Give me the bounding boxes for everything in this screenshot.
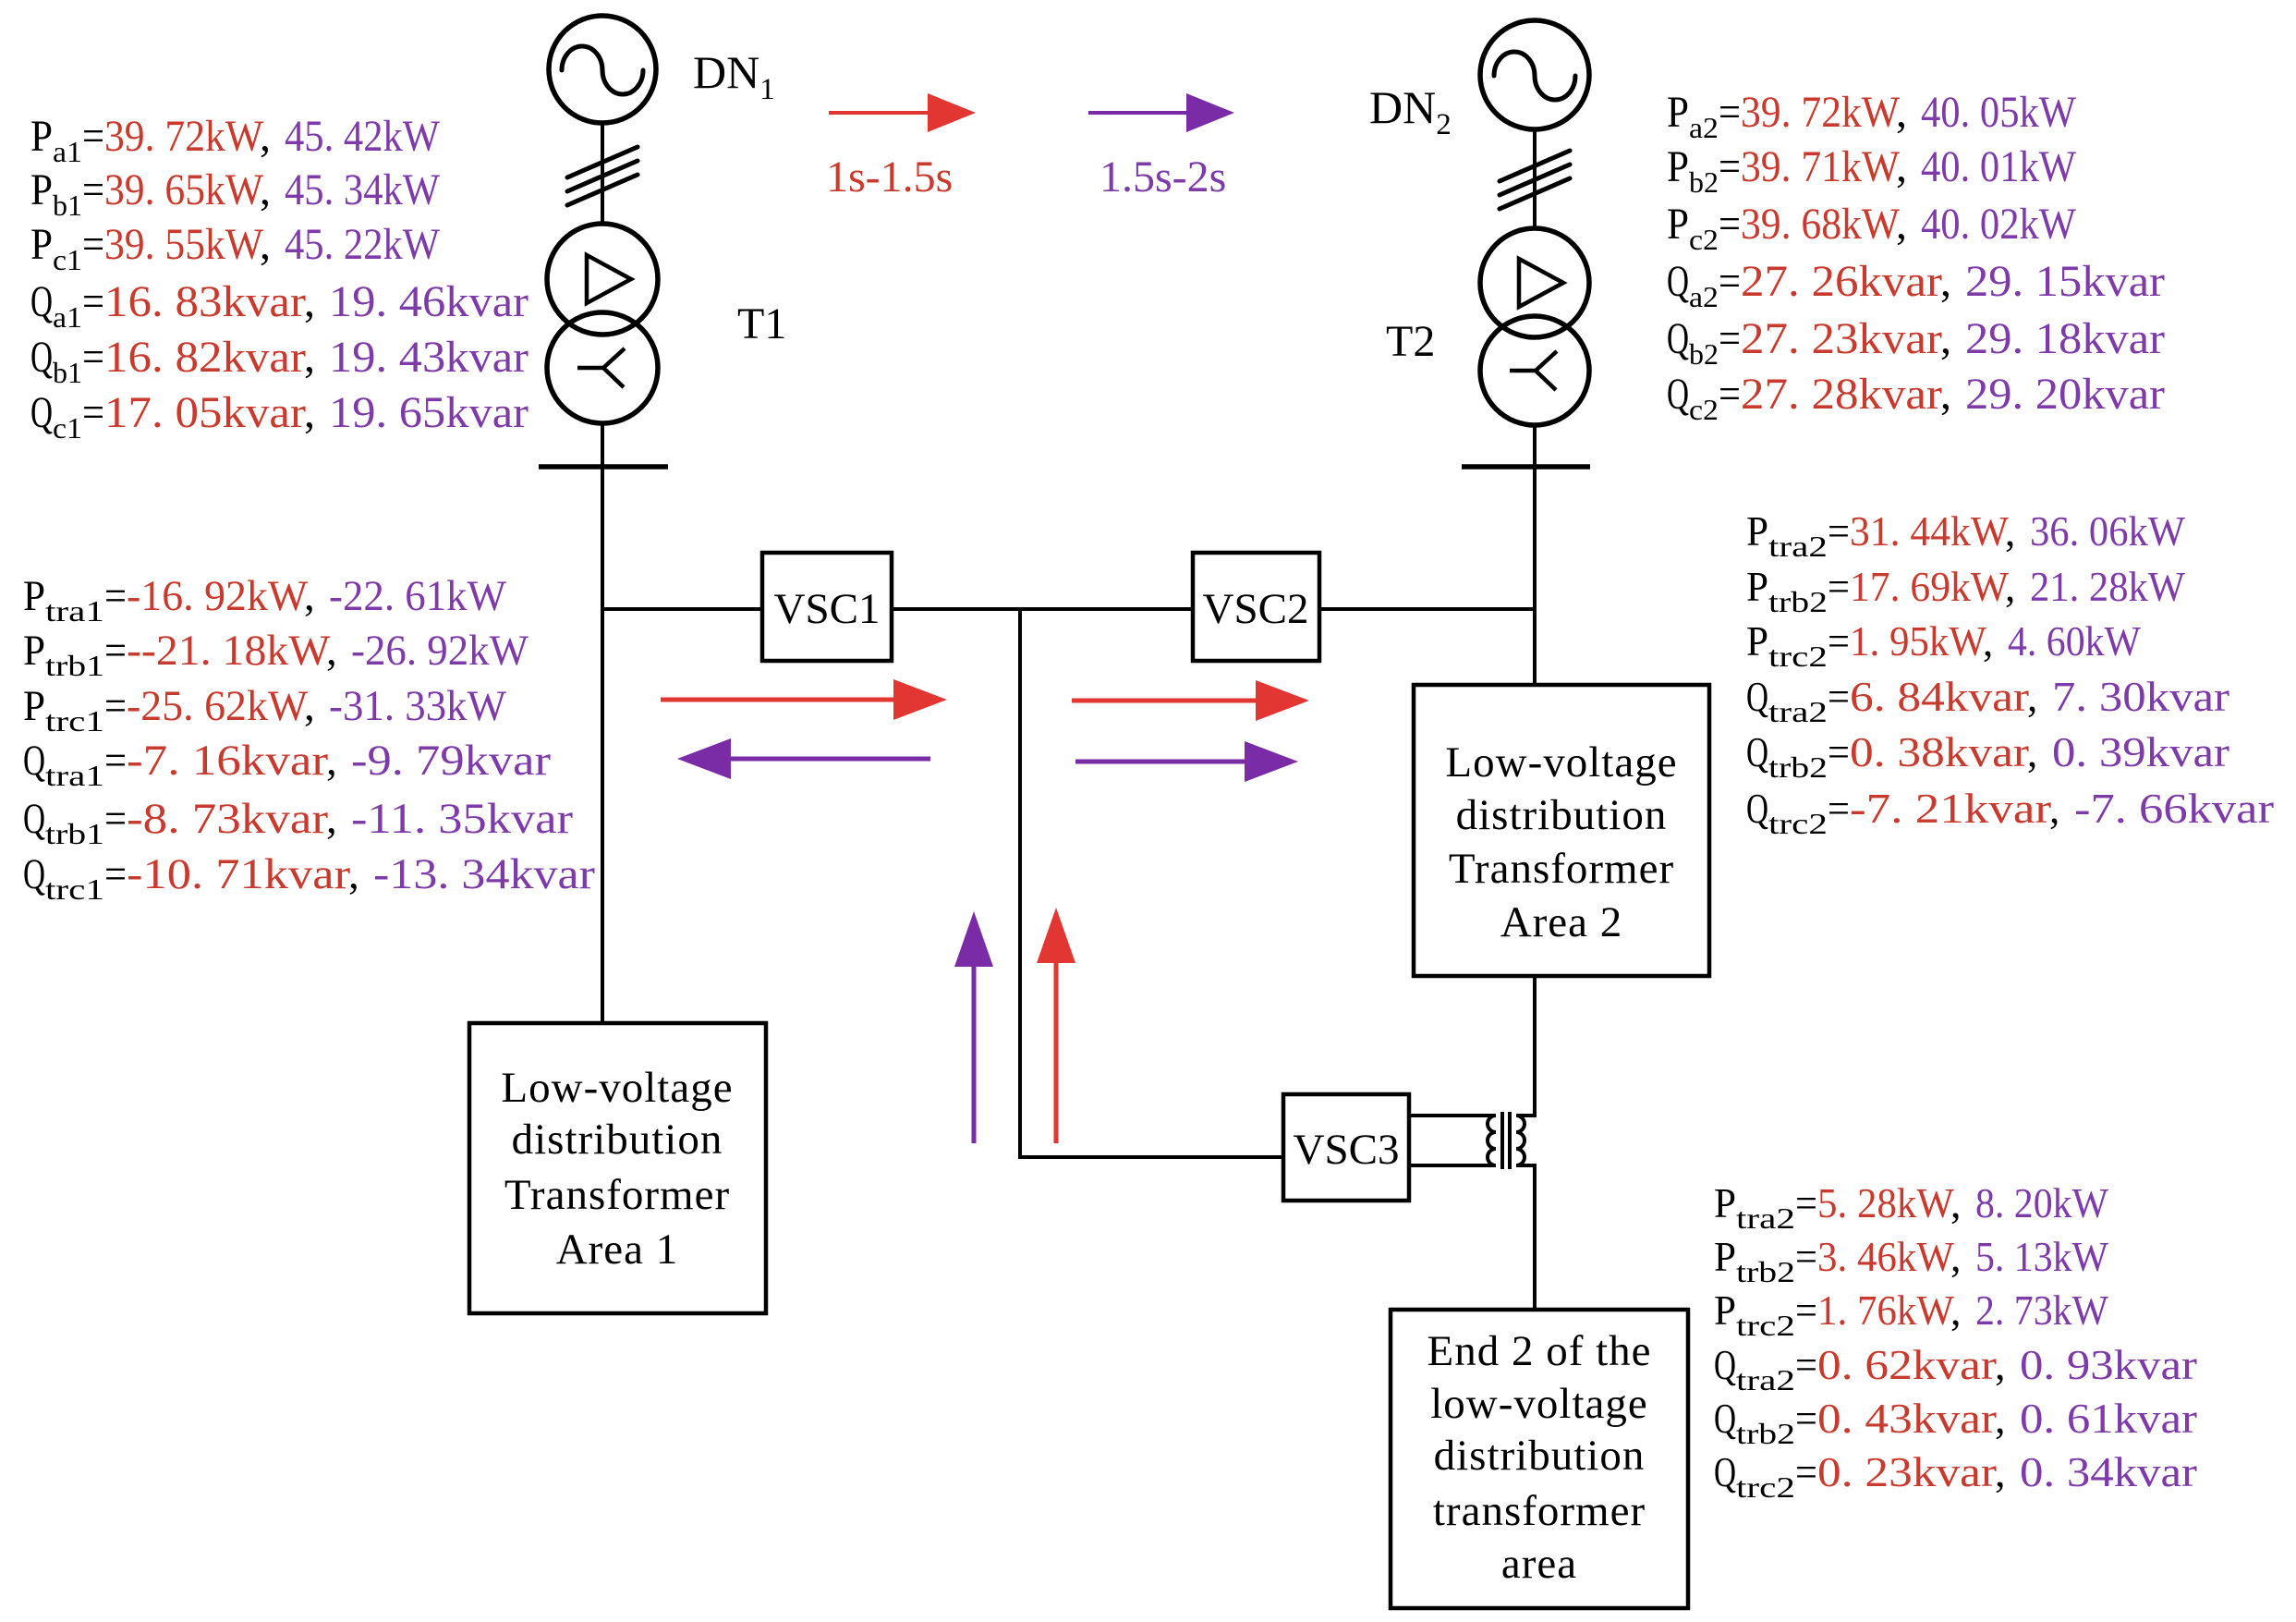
svg-text:VSC1: VSC1 (774, 585, 881, 633)
box: Low-voltage distribution Transformer Area 1 (469, 1023, 766, 1313)
svg-text:Qb1=16. 82kvar,19. 43kvar: Qb1=16. 82kvar,19. 43kvar (30, 333, 528, 389)
box: Low-voltage distribution Transformer Area 2 (1414, 685, 1709, 976)
wire: VSC3 lower stub to winding (1407, 1164, 1496, 1167)
svg-text:Qa2=27. 26kvar,29. 15kvar: Qa2=27. 26kvar,29. 15kvar (1667, 257, 2165, 313)
svg-text:Qtrb1=-8. 73kvar,-11. 35kvar: Qtrb1=-8. 73kvar,-11. 35kvar (23, 795, 573, 850)
svg-text:Pb2=39. 71kW,40. 01kW: Pb2=39. 71kW,40. 01kW (1667, 142, 2077, 199)
svg-text:Low-voltage: Low-voltage (1445, 738, 1677, 787)
svg-text:Pa2=39. 72kW,40. 05kW: Pa2=39. 72kW,40. 05kW (1667, 88, 2077, 144)
svg-text:distribution: distribution (1434, 1432, 1646, 1480)
flow arrow purple up (VSC3 branch) (954, 911, 993, 1143)
flow arrow red right (VSC2 zone) (1072, 680, 1309, 721)
wire: drop from junction J1 down (1018, 607, 1022, 1159)
wire: tie bus middle segment (VSC1 to VSC2 through junction J1) (890, 607, 1195, 611)
wire: T2 through bus B2 to Area 2 box (1533, 425, 1537, 685)
wire: DN2 to T2 (1533, 128, 1537, 230)
svg-text:Qb2=27. 23kvar,29. 18kvar: Qb2=27. 23kvar,29. 18kvar (1667, 314, 2165, 371)
isolation transformer secondary winding (1516, 1116, 1525, 1165)
svg-text:low-voltage: low-voltage (1430, 1380, 1648, 1428)
wire: DN1 to T1 (601, 122, 604, 226)
three-phase marks at T1 (567, 147, 638, 205)
wire: Area 2 box to isolation transformer (1533, 976, 1537, 1117)
flow arrow red right (VSC1 zone) (661, 679, 947, 720)
svg-text:Area 2: Area 2 (1500, 898, 1623, 946)
isolation transformer core (1502, 1112, 1510, 1169)
wire: isolation transformer to End 2 box (1533, 1164, 1537, 1310)
wire: winding upper stub to riser (1516, 1114, 1537, 1117)
svg-text:Pa1=39. 72kW,45. 42kW: Pa1=39. 72kW,45. 42kW (30, 112, 441, 168)
legend red arrow (829, 93, 976, 132)
svg-text:1s-1.5s: 1s-1.5s (826, 152, 953, 201)
transformer T1 (547, 224, 658, 423)
svg-text:Transformer: Transformer (504, 1171, 730, 1219)
svg-text:Pc1=39. 55kW,45. 22kW: Pc1=39. 55kW,45. 22kW (30, 220, 441, 276)
svg-text:T1: T1 (737, 299, 786, 348)
svg-text:Qa1=16. 83kvar,19. 46kvar: Qa1=16. 83kvar,19. 46kvar (30, 277, 528, 334)
wire: winding lower stub to riser (1516, 1164, 1537, 1167)
svg-text:Pc2=39. 68kW,40. 02kW: Pc2=39. 68kW,40. 02kW (1667, 200, 2077, 256)
converter VSC2 (1193, 553, 1319, 661)
three-phase marks at T2 (1500, 151, 1570, 209)
svg-text:Pb1=39. 65kW,45. 34kW: Pb1=39. 65kW,45. 34kW (30, 165, 441, 222)
bus bar B2 (1462, 464, 1590, 470)
wire: run from drop to VSC3 (1018, 1155, 1285, 1159)
wire: tie bus right segment (VSC2 to T2 branch) (1318, 607, 1537, 611)
flow arrow purple right (VSC2 zone) (1075, 741, 1298, 782)
svg-text:Transformer: Transformer (1449, 845, 1674, 893)
legend purple arrow (1088, 93, 1234, 132)
svg-text:Low-voltage: Low-voltage (501, 1064, 733, 1112)
svg-text:1.5s-2s: 1.5s-2s (1099, 152, 1226, 201)
source DN2 (1480, 20, 1589, 129)
transformer T2 (1480, 228, 1589, 425)
svg-text:area: area (1501, 1540, 1577, 1588)
source DN1 (549, 16, 656, 123)
svg-text:distribution: distribution (512, 1116, 723, 1164)
bus bar B1 (539, 464, 668, 470)
wire: tie bus left segment (T1 branch to VSC1) (601, 607, 764, 611)
svg-text:VSC3: VSC3 (1294, 1126, 1400, 1174)
svg-text:End 2 of the: End 2 of the (1427, 1327, 1651, 1375)
svg-text:Area 1: Area 1 (556, 1226, 679, 1274)
svg-text:VSC2: VSC2 (1203, 585, 1309, 633)
svg-text:Qtrc1=-10. 71kvar,-13. 34kvar: Qtrc1=-10. 71kvar,-13. 34kvar (23, 850, 595, 906)
svg-text:T2: T2 (1386, 317, 1435, 366)
isolation transformer primary winding (1488, 1116, 1496, 1165)
svg-text:distribution: distribution (1456, 791, 1668, 839)
flow arrow red up (VSC3 branch) (1037, 908, 1075, 1143)
converter VSC3 (1283, 1094, 1409, 1201)
box: End 2 of the low-voltage distribution transformer area (1391, 1310, 1688, 1608)
svg-text:Qc1=17. 05kvar,19. 65kvar: Qc1=17. 05kvar,19. 65kvar (30, 388, 528, 445)
flow arrow purple left (VSC1 zone) (677, 738, 930, 779)
wire: T1 through bus B1 down to Area 1 box (601, 421, 604, 1023)
wire: VSC3 upper stub to winding (1407, 1114, 1496, 1117)
svg-text:transformer: transformer (1433, 1487, 1646, 1535)
converter VSC1 (762, 553, 892, 661)
svg-text:Qc2=27. 28kvar,29. 20kvar: Qc2=27. 28kvar,29. 20kvar (1667, 370, 2165, 426)
